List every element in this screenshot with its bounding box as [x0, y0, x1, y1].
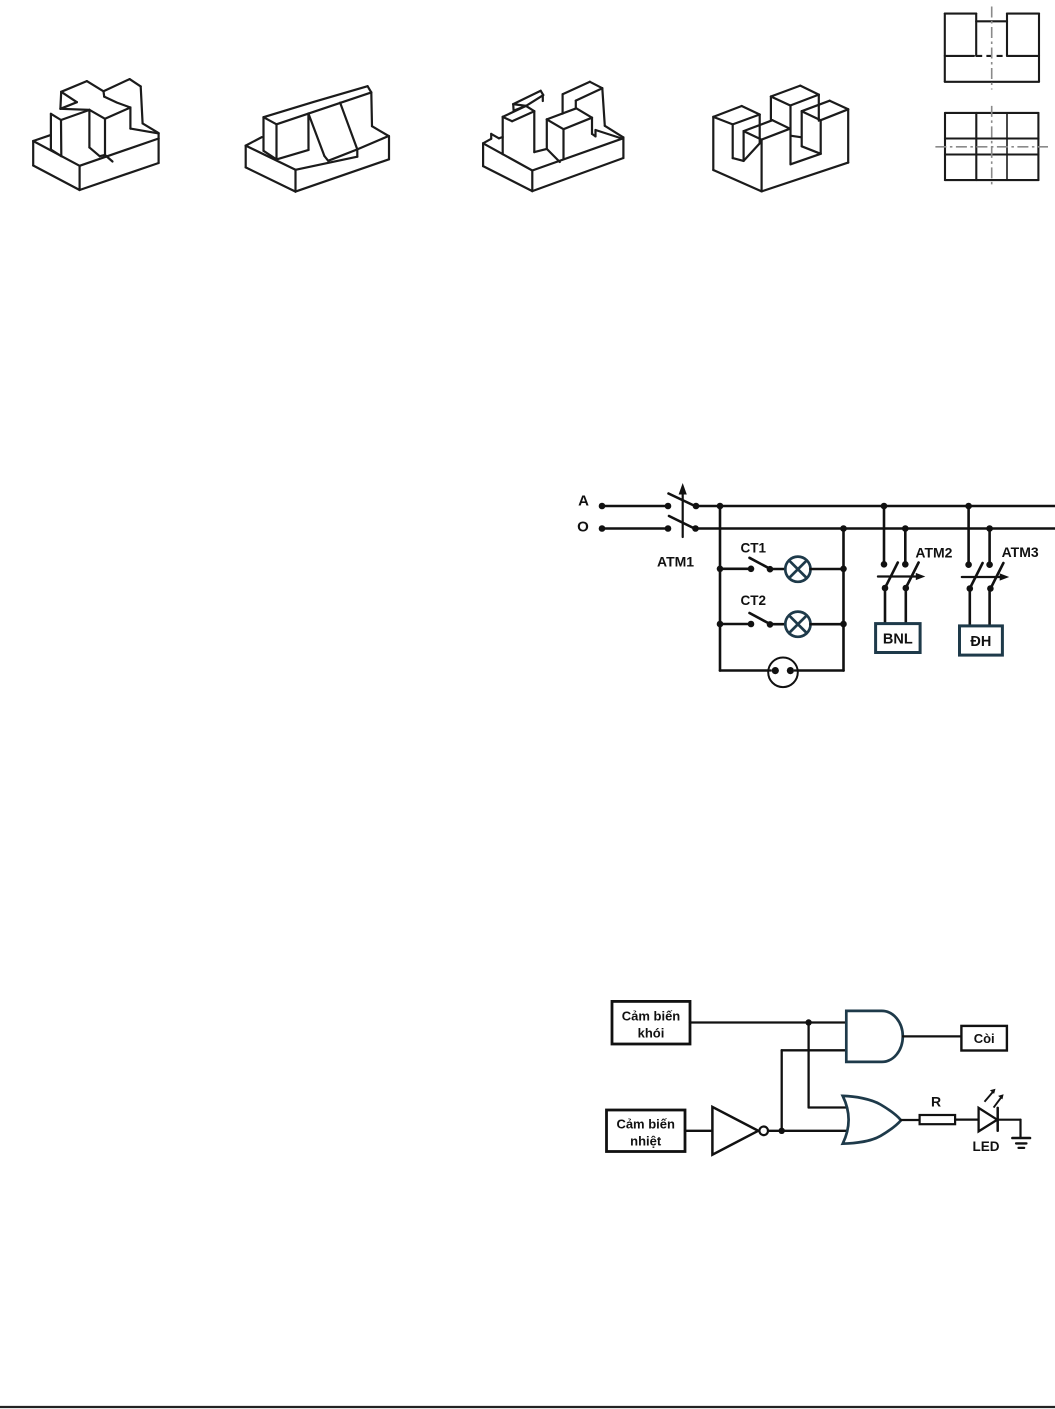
junction	[717, 566, 724, 573]
breaker ATM2 blade 2	[905, 563, 919, 590]
NOT gate U2	[712, 1107, 758, 1155]
junction A to lamp branch	[717, 503, 724, 510]
ATM2 contact bottom 2	[903, 585, 910, 592]
isometric figure 4: block with two U slots	[712, 117, 714, 170]
wire ATM3 pole1 lower	[968, 589, 971, 626]
wire socket branch	[720, 669, 844, 672]
bottom horizontal rule	[0, 1406, 1055, 1408]
junction smoke line	[805, 1019, 811, 1025]
ATM2 contact top 1	[881, 561, 888, 568]
switch CT1 pivot	[748, 566, 755, 573]
wire ATM2 pole2 lower	[904, 588, 907, 624]
junction NOT output	[779, 1128, 785, 1134]
breaker ATM1 blade A	[669, 494, 697, 507]
breaker ATM1 actuator arrow	[682, 489, 684, 537]
breaker ATM2 bar arrow	[878, 575, 919, 577]
svg-text:ĐH: ĐH	[970, 634, 991, 650]
junction A ATM3	[965, 503, 972, 510]
heat sensor box	[607, 1110, 686, 1152]
wire ATM2 pole1 upper	[883, 506, 886, 564]
svg-text:R: R	[931, 1094, 941, 1110]
breaker ATM3 bar arrow	[962, 576, 1003, 578]
LED diode	[979, 1108, 998, 1132]
isometric figure 2: wall with gusset on base	[245, 146, 247, 168]
wire OR output to resistor	[901, 1119, 920, 1121]
switch CT2 pivot	[748, 621, 755, 628]
breaker ATM2 blade 1	[884, 563, 898, 590]
junction O ATM2	[902, 525, 909, 532]
svg-text:ATM3: ATM3	[1002, 544, 1039, 560]
svg-text:nhiệt: nhiệt	[630, 1134, 662, 1149]
junction A ATM2	[881, 503, 888, 510]
wire LED to ground	[998, 1119, 1021, 1121]
lamp Đ2	[785, 612, 810, 637]
svg-text:Cảm biến: Cảm biến	[616, 1117, 675, 1132]
OR gate U3	[843, 1096, 901, 1144]
breaker ATM3 blade 2	[990, 563, 1004, 590]
svg-text:khói: khói	[638, 1026, 665, 1041]
smoke sensor box	[612, 1001, 690, 1044]
wire NOT to OR	[768, 1130, 850, 1132]
wire junction down to OR input	[807, 1023, 809, 1108]
wire lamp1 to right	[811, 568, 844, 571]
ATM1 contact in O	[665, 525, 672, 532]
wire lamp2 to right	[811, 623, 844, 626]
switch CT2 contact	[767, 621, 774, 628]
svg-text:ATM1: ATM1	[657, 554, 694, 570]
breaker ATM3 blade 1	[969, 563, 983, 590]
junction	[840, 566, 847, 573]
switch CT1 contact	[767, 566, 774, 573]
wire CT1 to lamp	[770, 568, 785, 571]
ATM1 contact out O	[692, 525, 699, 532]
wire phase A bus	[696, 505, 1055, 508]
wire resistor to LED	[955, 1118, 979, 1120]
load box DH (lights)	[960, 626, 1003, 655]
ATM1 contact out A	[693, 503, 700, 510]
junction O to lamp branch	[840, 525, 847, 532]
svg-text:Cảm biến: Cảm biến	[622, 1009, 681, 1024]
junction	[717, 621, 724, 628]
wire ATM3 pole1 upper	[967, 506, 970, 565]
horn box Coi	[961, 1026, 1007, 1051]
wire AND output to Coi	[903, 1035, 962, 1037]
wire CT1 branch left	[720, 567, 751, 570]
terminal A	[599, 503, 606, 510]
LED arrows	[985, 1091, 995, 1102]
lamp Đ1	[785, 557, 810, 582]
breaker ATM1 blade O	[669, 516, 696, 529]
wire phase A left	[602, 505, 668, 508]
wire CT2 to lamp	[770, 623, 785, 626]
svg-text:LED: LED	[973, 1139, 1000, 1154]
wire NOT output up to AND input	[781, 1050, 783, 1131]
wire ATM2 pole1 lower	[884, 588, 887, 624]
ATM3 contact bottom 1	[967, 585, 974, 592]
ATM3 contact top 1	[965, 561, 972, 568]
ATM2 contact bottom 1	[882, 585, 889, 592]
wire smoke sensor to AND gate	[690, 1021, 847, 1023]
wire ATM3 pole2 lower	[988, 589, 991, 626]
ATM3 contact top 2	[986, 561, 993, 568]
ATM3 contact bottom 2	[987, 585, 994, 592]
wire neutral O bus	[696, 527, 1055, 530]
AND gate U1	[846, 1011, 903, 1062]
svg-text:CT2: CT2	[741, 593, 767, 608]
isometric figure 1: cross block on base	[32, 141, 34, 166]
ground	[1012, 1137, 1030, 1140]
terminal O	[599, 525, 606, 532]
socket outlet	[768, 658, 798, 688]
ATM2 contact top 2	[902, 561, 909, 568]
wire heat sensor to NOT	[685, 1130, 712, 1132]
switch CT1 blade	[750, 558, 771, 569]
wire vertical from A	[719, 506, 722, 671]
svg-text:BNL: BNL	[883, 632, 913, 648]
switch CT2 blade	[750, 613, 771, 624]
wire CT2 branch left	[720, 623, 751, 626]
svg-text:Còi: Còi	[974, 1031, 995, 1046]
wire vertical to O	[842, 529, 845, 671]
svg-text:O: O	[577, 519, 589, 536]
junction O ATM3	[986, 525, 993, 532]
load box BNL (water heater)	[876, 624, 921, 653]
wire neutral O left	[602, 527, 668, 530]
resistor R	[920, 1115, 956, 1124]
svg-text:CT1: CT1	[741, 541, 767, 556]
wire ATM2 pole2 upper	[904, 529, 907, 565]
junction	[840, 621, 847, 628]
ATM1 contact in A	[665, 503, 672, 510]
svg-text:ATM2: ATM2	[915, 545, 952, 561]
isometric figure 3: stepped towers block	[482, 143, 484, 166]
svg-text:A: A	[578, 493, 589, 510]
wire ATM3 pole2 upper	[988, 529, 991, 565]
orthographic views top-right	[944, 14, 946, 82]
